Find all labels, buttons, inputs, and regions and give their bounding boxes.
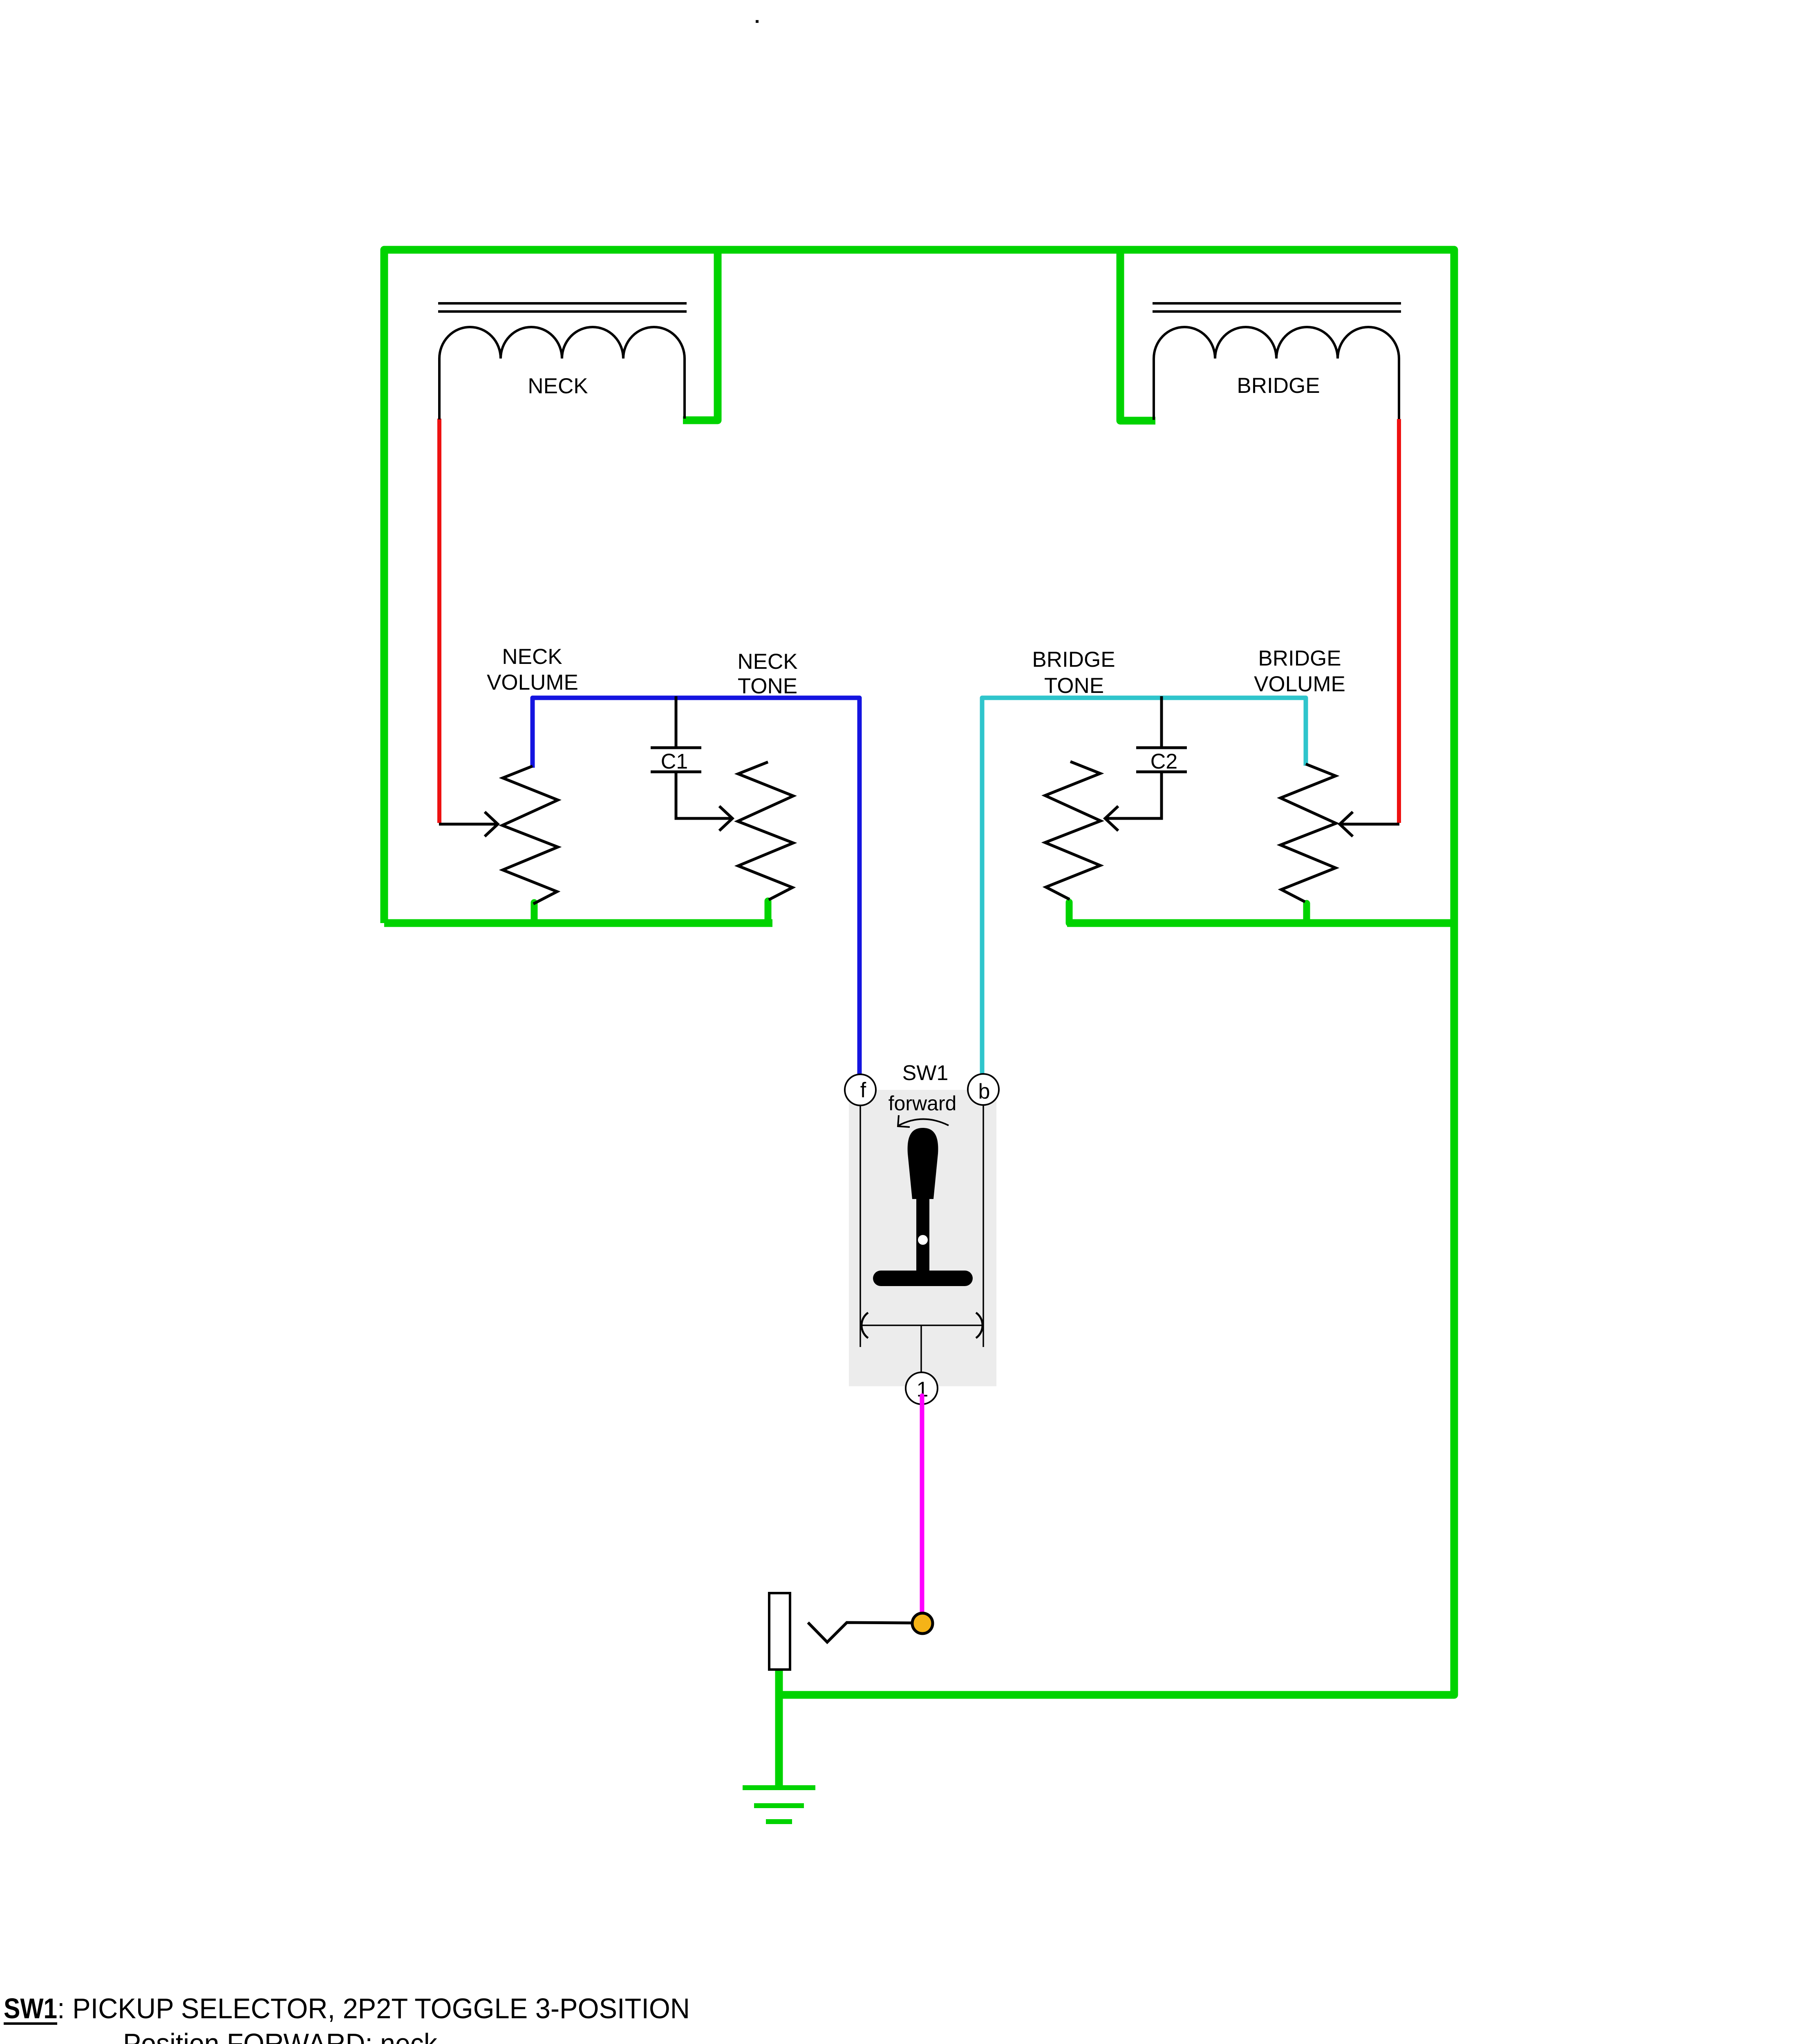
wire switch output to jack (magenta): [920, 1393, 924, 1624]
ground symbol: [743, 1788, 815, 1822]
wire ground drop to NECK pickup: [683, 250, 718, 420]
capacitor C1: [651, 696, 701, 772]
wire NECK pickup hot (red): [437, 419, 441, 823]
stray dot mark: [756, 20, 759, 23]
switch SW1 terminal b: [968, 1074, 999, 1105]
wiper arrow BRIDGE TONE: [1105, 773, 1162, 831]
output jack tip terminal: [912, 1613, 933, 1634]
wire ground stub to NECK VOLUME pot: [531, 903, 538, 923]
wire BRIDGE pickup hot (red): [1397, 419, 1401, 823]
switch SW1 lever stem: [916, 1198, 929, 1272]
svg-text:NECK: NECK: [502, 645, 562, 669]
wire NECK VOLUME to NECK TONE to switch f (blue): [533, 698, 859, 1075]
switch SW1 contact line b: [983, 1105, 984, 1347]
svg-text:NECK: NECK: [528, 374, 588, 398]
wire ground stub to BRIDGE TONE pot: [1066, 902, 1073, 923]
wire magenta overlay at terminal 1: [920, 1396, 924, 1414]
switch SW1 terminal 1: [906, 1372, 938, 1404]
wire BRIDGE TONE to BRIDGE VOLUME to switch b (cyan): [982, 698, 1306, 1075]
wire ground jack to earth: [775, 1669, 783, 1785]
switch SW1 terminal f: [845, 1074, 876, 1105]
svg-text:b: b: [978, 1080, 990, 1103]
svg-text:VOLUME: VOLUME: [487, 670, 578, 695]
svg-text:BRIDGE: BRIDGE: [1258, 646, 1341, 670]
svg-text:TONE: TONE: [738, 674, 797, 698]
svg-text:SW1: SW1: [4, 1992, 57, 2024]
switch SW1 pivot dot: [918, 1235, 928, 1245]
switch SW1 throw dimension line: [860, 1325, 983, 1373]
wire ground stub to NECK TONE pot: [765, 901, 772, 923]
capacitor C2: [1136, 696, 1187, 772]
potentiometer NECK TONE resistor: [738, 762, 793, 900]
wire ground bottom-left segment: [384, 919, 772, 927]
pickup NECK polepiece lines: [438, 303, 687, 312]
switch SW1 lever knob: [908, 1128, 938, 1199]
output jack sleeve: [769, 1593, 790, 1670]
forward direction curved arrow: [898, 1115, 949, 1127]
svg-text:C2: C2: [1150, 750, 1177, 773]
wiper arrow NECK TONE: [676, 773, 732, 831]
switch SW1 dimension arrowhead right: [976, 1313, 983, 1338]
potentiometer BRIDGE TONE resistor: [1045, 762, 1101, 899]
svg-text:TONE: TONE: [1044, 674, 1104, 698]
svg-text:SW1: SW1: [902, 1061, 949, 1085]
pickup BRIDGE polepiece lines: [1153, 303, 1401, 312]
wire ground drop to BRIDGE pickup: [1120, 250, 1155, 421]
wiper arrow NECK VOLUME: [439, 812, 498, 836]
svg-text:: PICKUP SELECTOR, 2P2T TOGGLE: : PICKUP SELECTOR, 2P2T TOGGLE 3-POSITIO…: [57, 1992, 690, 2024]
svg-text:f: f: [860, 1078, 866, 1102]
svg-text:BRIDGE: BRIDGE: [1237, 374, 1320, 398]
wire ground stub to BRIDGE VOLUME pot: [1303, 903, 1310, 923]
switch SW1 dimension arrowhead left: [862, 1313, 868, 1338]
switch SW1 contact line f: [859, 1105, 861, 1347]
pickup NECK coil: [439, 327, 685, 419]
potentiometer BRIDGE VOLUME resistor: [1280, 764, 1336, 902]
pickup BRIDGE coil: [1154, 327, 1399, 420]
potentiometer NECK VOLUME resistor: [502, 766, 558, 904]
wiper arrow BRIDGE VOLUME: [1340, 812, 1399, 836]
svg-text:NECK: NECK: [737, 650, 797, 674]
svg-text:VOLUME: VOLUME: [1254, 672, 1345, 696]
switch SW1 body: [849, 1090, 996, 1386]
output jack tip contact spring: [808, 1623, 912, 1642]
switch SW1 lever base bar: [873, 1271, 973, 1286]
svg-text:BRIDGE: BRIDGE: [1032, 648, 1115, 672]
wire ground bus main loop (green): [384, 250, 1454, 1695]
svg-text:forward: forward: [889, 1092, 957, 1115]
wire ground bottom-right segment: [1067, 919, 1454, 927]
svg-text:Position FORWARD: neck: Position FORWARD: neck: [123, 2028, 438, 2044]
svg-text:C1: C1: [661, 750, 688, 773]
